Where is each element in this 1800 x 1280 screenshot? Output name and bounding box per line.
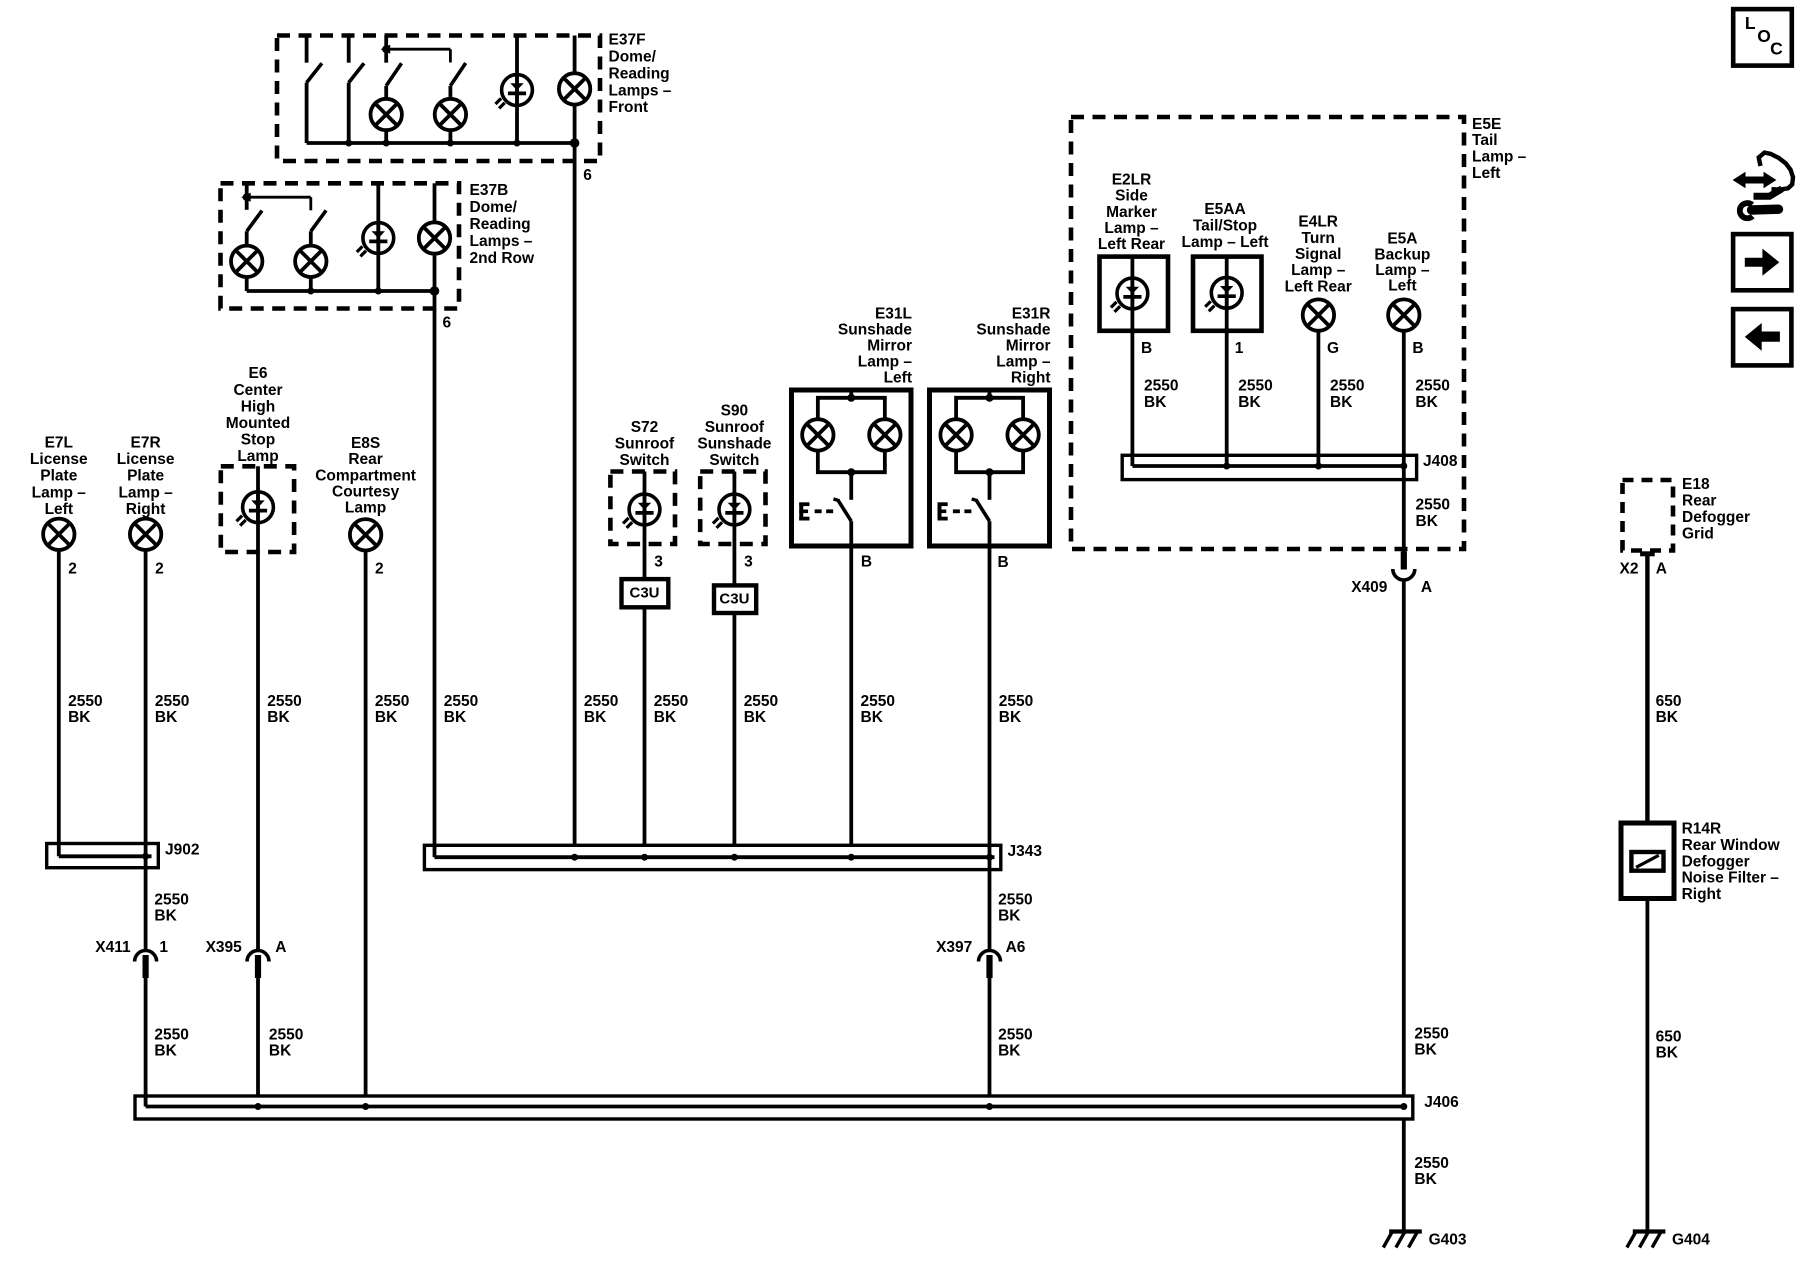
svg-text:BK: BK (155, 709, 178, 726)
svg-text:BK: BK (1416, 513, 1439, 530)
svg-text:Sunroof: Sunroof (615, 436, 675, 453)
svg-text:2nd Row: 2nd Row (470, 250, 536, 267)
svg-text:B: B (1412, 340, 1423, 357)
svg-text:License: License (30, 451, 88, 468)
svg-text:E6: E6 (249, 365, 268, 382)
svg-text:Compartment: Compartment (315, 467, 416, 484)
svg-text:2550: 2550 (744, 693, 778, 710)
svg-text:Mirror: Mirror (867, 337, 912, 354)
svg-text:BK: BK (375, 709, 398, 726)
svg-text:S90: S90 (721, 403, 749, 420)
svg-text:2550: 2550 (154, 1027, 188, 1044)
svg-text:BK: BK (68, 709, 91, 726)
svg-text:Stop: Stop (241, 432, 275, 449)
svg-text:Grid: Grid (1682, 525, 1714, 542)
svg-text:BK: BK (1656, 1044, 1679, 1061)
svg-text:X411: X411 (95, 939, 131, 956)
svg-text:Reading: Reading (609, 65, 670, 82)
svg-text:Mirror: Mirror (1006, 337, 1051, 354)
svg-text:Dome/: Dome/ (470, 199, 518, 216)
svg-text:2550: 2550 (1238, 378, 1272, 395)
svg-text:2550: 2550 (1330, 378, 1364, 395)
svg-text:E5A: E5A (1387, 231, 1417, 248)
svg-text:BK: BK (584, 709, 607, 726)
svg-text:2550: 2550 (375, 693, 409, 710)
svg-text:BK: BK (998, 1042, 1021, 1059)
svg-text:E7L: E7L (45, 435, 73, 452)
svg-text:Switch: Switch (709, 452, 759, 469)
svg-text:BK: BK (654, 709, 677, 726)
svg-text:Rear Window: Rear Window (1682, 837, 1781, 854)
svg-text:Left: Left (45, 501, 73, 518)
svg-text:3: 3 (744, 554, 753, 571)
svg-text:Switch: Switch (620, 452, 670, 469)
svg-text:2550: 2550 (861, 693, 895, 710)
svg-text:E31L: E31L (875, 305, 912, 322)
svg-text:2550: 2550 (68, 693, 102, 710)
svg-text:Lamp –: Lamp – (32, 484, 87, 501)
svg-text:Lamp –: Lamp – (996, 353, 1051, 370)
svg-text:BK: BK (269, 1042, 292, 1059)
svg-text:Lamp –: Lamp – (858, 353, 913, 370)
svg-text:E5AA: E5AA (1204, 201, 1245, 218)
svg-text:L: L (1745, 13, 1756, 33)
svg-text:Right: Right (1682, 886, 1722, 903)
svg-text:E4LR: E4LR (1298, 214, 1338, 231)
svg-text:6: 6 (443, 315, 452, 332)
svg-text:Sunshade: Sunshade (838, 321, 912, 338)
svg-text:S72: S72 (631, 419, 659, 436)
svg-text:Plate: Plate (40, 468, 77, 485)
svg-text:Plate: Plate (127, 468, 164, 485)
svg-text:2550: 2550 (1414, 1155, 1448, 1172)
svg-text:2550: 2550 (1416, 497, 1450, 514)
svg-text:E5E: E5E (1472, 116, 1501, 133)
svg-text:C3U: C3U (629, 585, 659, 602)
svg-text:R14R: R14R (1682, 821, 1722, 838)
svg-text:J408: J408 (1423, 453, 1458, 470)
svg-text:BK: BK (998, 907, 1021, 924)
svg-text:2550: 2550 (584, 693, 618, 710)
svg-text:E7R: E7R (131, 435, 161, 452)
svg-text:Tail/Stop: Tail/Stop (1193, 218, 1257, 235)
svg-text:E31R: E31R (1012, 305, 1051, 322)
svg-text:Side: Side (1115, 188, 1148, 205)
svg-text:X2: X2 (1620, 560, 1639, 577)
svg-text:Noise Filter –: Noise Filter – (1682, 870, 1780, 887)
svg-text:Sunshade: Sunshade (976, 321, 1050, 338)
svg-text:O: O (1757, 26, 1771, 46)
svg-text:650: 650 (1656, 693, 1682, 710)
svg-text:B: B (1141, 340, 1152, 357)
svg-text:J406: J406 (1424, 1094, 1459, 1111)
svg-text:2550: 2550 (654, 693, 688, 710)
svg-text:2: 2 (155, 561, 164, 578)
svg-text:BK: BK (154, 907, 177, 924)
svg-text:Lamp –: Lamp – (1375, 262, 1430, 279)
svg-text:Signal: Signal (1295, 246, 1342, 263)
svg-text:Mounted: Mounted (226, 415, 291, 432)
svg-text:2: 2 (375, 561, 384, 578)
svg-text:E37B: E37B (470, 182, 509, 199)
svg-text:G403: G403 (1429, 1232, 1467, 1249)
svg-text:3: 3 (654, 554, 663, 571)
svg-text:BK: BK (1238, 394, 1261, 411)
svg-text:Lamp: Lamp (237, 448, 278, 465)
svg-text:BK: BK (861, 709, 884, 726)
svg-text:Lamp: Lamp (345, 500, 386, 517)
svg-text:Lamp –: Lamp – (1472, 149, 1527, 166)
svg-text:Dome/: Dome/ (609, 49, 657, 66)
svg-text:2550: 2550 (1144, 378, 1178, 395)
svg-text:Tail: Tail (1472, 132, 1498, 149)
svg-text:B: B (861, 553, 872, 570)
svg-text:BK: BK (267, 709, 290, 726)
svg-text:2550: 2550 (998, 892, 1032, 909)
svg-text:Left Rear: Left Rear (1285, 278, 1352, 295)
svg-text:2: 2 (68, 561, 77, 578)
svg-text:A: A (275, 939, 286, 956)
svg-text:2550: 2550 (269, 1027, 303, 1044)
svg-text:BK: BK (444, 709, 467, 726)
svg-text:2550: 2550 (999, 693, 1033, 710)
svg-text:Left: Left (1472, 165, 1500, 182)
svg-text:E8S: E8S (351, 435, 380, 452)
svg-text:BK: BK (1415, 394, 1438, 411)
svg-text:BK: BK (744, 709, 767, 726)
svg-text:C: C (1770, 39, 1783, 59)
svg-text:License: License (117, 451, 175, 468)
svg-text:Lamps –: Lamps – (470, 233, 533, 250)
svg-text:B: B (998, 554, 1009, 571)
svg-text:A6: A6 (1006, 939, 1026, 956)
svg-text:BK: BK (1330, 394, 1353, 411)
svg-text:Sunshade: Sunshade (697, 436, 771, 453)
svg-text:X397: X397 (936, 939, 972, 956)
svg-text:High: High (241, 398, 275, 415)
svg-text:Marker: Marker (1106, 204, 1157, 221)
svg-text:Right: Right (126, 501, 166, 518)
svg-text:2550: 2550 (267, 693, 301, 710)
svg-text:G404: G404 (1672, 1232, 1710, 1249)
svg-text:2550: 2550 (1415, 378, 1449, 395)
svg-text:Left Rear: Left Rear (1098, 236, 1165, 253)
svg-text:Turn: Turn (1302, 230, 1335, 247)
svg-text:A: A (1656, 560, 1667, 577)
svg-text:BK: BK (1656, 709, 1679, 726)
svg-text:E2LR: E2LR (1112, 171, 1152, 188)
svg-text:Rear: Rear (1682, 493, 1716, 510)
svg-text:A: A (1421, 579, 1432, 596)
svg-text:6: 6 (583, 167, 592, 184)
svg-text:Right: Right (1011, 369, 1051, 386)
svg-text:Defogger: Defogger (1682, 509, 1750, 526)
svg-text:Reading: Reading (470, 216, 531, 233)
svg-text:BK: BK (1414, 1171, 1437, 1188)
svg-text:C3U: C3U (719, 591, 749, 608)
svg-text:Lamp –: Lamp – (1104, 220, 1159, 237)
svg-text:BK: BK (154, 1042, 177, 1059)
svg-text:E37F: E37F (609, 32, 646, 49)
svg-text:J902: J902 (165, 842, 199, 859)
svg-text:E18: E18 (1682, 476, 1710, 493)
svg-text:2550: 2550 (998, 1027, 1032, 1044)
svg-text:2550: 2550 (1414, 1026, 1448, 1043)
svg-text:G: G (1327, 340, 1339, 357)
svg-text:Front: Front (609, 99, 649, 116)
svg-text:Sunroof: Sunroof (705, 419, 765, 436)
svg-text:Left: Left (1388, 278, 1416, 295)
svg-text:2550: 2550 (444, 693, 478, 710)
svg-text:J343: J343 (1008, 843, 1043, 860)
svg-text:Defogger: Defogger (1682, 853, 1750, 870)
svg-text:Backup: Backup (1374, 246, 1430, 263)
svg-text:2550: 2550 (155, 693, 189, 710)
svg-text:Lamp –: Lamp – (1291, 262, 1346, 279)
svg-text:Courtesy: Courtesy (332, 484, 400, 501)
svg-text:Lamps –: Lamps – (609, 82, 672, 99)
svg-text:Left: Left (884, 369, 912, 386)
svg-text:X395: X395 (206, 939, 243, 956)
svg-text:Lamp – Left: Lamp – Left (1182, 234, 1269, 251)
svg-text:2550: 2550 (154, 892, 188, 909)
svg-text:BK: BK (999, 709, 1022, 726)
svg-text:1: 1 (159, 939, 168, 956)
svg-text:X409: X409 (1351, 579, 1388, 596)
svg-text:650: 650 (1656, 1028, 1682, 1045)
svg-text:Rear: Rear (348, 451, 382, 468)
svg-text:BK: BK (1144, 394, 1167, 411)
svg-text:1: 1 (1235, 340, 1244, 357)
svg-text:Lamp –: Lamp – (118, 484, 173, 501)
svg-text:Center: Center (233, 382, 282, 399)
svg-text:BK: BK (1414, 1041, 1437, 1058)
